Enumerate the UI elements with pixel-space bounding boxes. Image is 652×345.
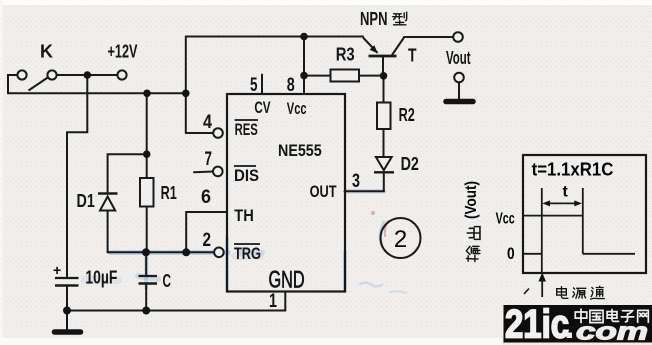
wire: D2 to OUT: [345, 172, 384, 191]
svg-text:10µF: 10µF: [85, 268, 117, 288]
waveform Vcc level line: [523, 215, 583, 217]
svg-text:7: 7: [205, 149, 213, 170]
wire: C bottom lead: [145, 284, 147, 311]
wire: top +12V rail: [186, 36, 363, 38]
pin 7 circle: [213, 167, 223, 177]
glyph 输 rotated: [466, 246, 480, 261]
svg-text:5: 5: [250, 75, 258, 96]
wire: R2 top lead: [383, 76, 385, 103]
waveform rise / power-on line: [541, 188, 543, 273]
waveform t arrow: [545, 202, 580, 204]
wire: +12V junction drop: [67, 75, 87, 278]
wire: switch to +12V: [57, 74, 118, 76]
power-on arrow: [541, 278, 543, 297]
svg-text:2: 2: [203, 230, 212, 251]
wire: R1 bottom lead: [146, 207, 148, 253]
svg-text:+12V: +12V: [108, 42, 138, 62]
svg-text:D1: D1: [77, 191, 95, 211]
wire: pin4 horizontal: [186, 132, 214, 134]
svg-text:D2: D2: [401, 154, 419, 174]
svg-text:3: 3: [352, 171, 360, 192]
logo .com dot: [567, 333, 573, 339]
wire: TRG line: [108, 251, 215, 253]
wire: D1 branch from R1: [108, 154, 147, 193]
svg-text:T: T: [408, 46, 417, 66]
wire: R1 top lead: [146, 93, 148, 178]
wire: output terminal 2 drop: [458, 82, 460, 99]
svg-text:Vout: Vout: [446, 48, 471, 68]
logo 21ic.com box: [504, 305, 652, 343]
terminal Vout: [453, 32, 463, 42]
svg-text:OUT: OUT: [310, 182, 337, 201]
wire: D1 bottom lead: [107, 211, 109, 253]
wire: switch left drop: [8, 75, 17, 93]
label 电源通 glyphs: [557, 286, 605, 299]
pin 4 circle: [213, 128, 223, 138]
waveform box: [523, 155, 646, 273]
svg-text:1: 1: [269, 291, 277, 312]
svg-text:NE555: NE555: [278, 141, 322, 160]
wire: pin5 stub: [261, 75, 263, 95]
svg-text:+: +: [53, 262, 61, 278]
svg-text:R1: R1: [161, 183, 177, 203]
wire: pin4 riser: [185, 37, 187, 134]
wire: K rail y93: [8, 92, 186, 94]
wire: pin7 stub: [194, 171, 213, 174]
svg-text:RES: RES: [235, 120, 258, 139]
waveform 0 level left: [523, 253, 542, 255]
terminal output return: [454, 73, 464, 83]
ground main: [55, 311, 81, 333]
diode D2: [374, 157, 394, 172]
glyph 型: [393, 12, 407, 25]
svg-text:NPN: NPN: [360, 9, 388, 29]
svg-text:CV: CV: [254, 98, 271, 117]
svg-text:(Vout): (Vout): [463, 181, 480, 219]
wire: R3 left lead: [304, 75, 331, 77]
switch K: [17, 70, 56, 90]
stray mark near waveform: [524, 289, 529, 295]
wire: R2 to D2: [383, 129, 385, 157]
svg-text:GND: GND: [269, 267, 305, 294]
svg-text:TRG: TRG: [234, 244, 261, 263]
ground output: [446, 99, 473, 105]
diode D1: [98, 194, 118, 211]
pin 2 circle: [214, 248, 224, 258]
resistor R3: [331, 70, 360, 82]
transistor T: [363, 38, 404, 76]
svg-text:R2: R2: [399, 105, 415, 125]
waveform 0 level right: [583, 253, 635, 255]
svg-text:R3: R3: [336, 45, 355, 65]
scan color artifacts: [85, 191, 417, 293]
svg-text:Vcc: Vcc: [496, 211, 515, 228]
capacitor 10uF: [55, 278, 79, 286]
svg-text:21ic: 21ic: [505, 303, 569, 345]
svg-text:K: K: [40, 42, 53, 62]
svg-text:TH: TH: [234, 206, 254, 225]
terminal +12V: [117, 70, 126, 79]
resistor R2: [377, 103, 391, 130]
capacitor C: [139, 276, 158, 284]
wire: bottom ground rail: [67, 310, 285, 312]
wire: pin1 GND lead: [284, 292, 286, 311]
wire: TH branch: [186, 212, 227, 252]
waveform fall edge: [582, 188, 584, 254]
wire: pin8 riser: [303, 37, 305, 95]
glyph 出 rotated: [467, 227, 480, 240]
IC U1 NE555 box: [227, 94, 345, 292]
svg-text:2: 2: [394, 226, 407, 253]
wire: 10uF cap to bottom rail: [66, 286, 68, 311]
wire: transistor emitter to Vout: [404, 36, 453, 38]
svg-text:6: 6: [201, 187, 211, 208]
svg-text:Vcc: Vcc: [287, 99, 307, 118]
logo 中国电子网 glyphs: [575, 309, 648, 323]
svg-text:4: 4: [203, 112, 212, 133]
svg-text:0: 0: [507, 244, 515, 263]
svg-text:t=1.1xR1C: t=1.1xR1C: [532, 160, 614, 180]
svg-text:DIS: DIS: [234, 166, 259, 185]
resistor R1: [140, 178, 154, 207]
svg-text:8: 8: [287, 75, 295, 96]
svg-text:t: t: [563, 184, 569, 201]
svg-text:C: C: [163, 271, 172, 291]
wire: C top lead: [145, 252, 147, 276]
node circled 2: [381, 218, 421, 258]
wire: R3 right lead: [359, 75, 384, 77]
